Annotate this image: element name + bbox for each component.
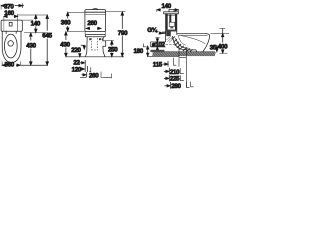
belly curve [172,36,196,52]
outlet stub (horizontal, rear) [151,42,166,47]
button [9,22,12,26]
hidden dashed trap lines [91,38,97,50]
svg-text:430: 430 [26,43,36,50]
inner trap lines [176,38,189,48]
bolt marks [89,38,91,40]
bowl side outline [165,31,167,42]
dim 140 top [157,9,179,14]
svg-text:645: 645 [42,32,52,39]
svg-text:G¾: G¾ [147,27,158,34]
svg-text:ø102: ø102 [152,41,166,48]
trap hatch [172,36,193,51]
svg-text:360: 360 [5,62,15,69]
svg-text:430: 430 [60,41,70,48]
svg-text:400: 400 [218,44,228,51]
G 3/4 inlet [162,32,166,34]
below-floor outlet pipe [179,47,187,58]
dim 790 [106,12,125,57]
heavier hatch under stub [151,50,165,52]
svg-text:250: 250 [108,47,118,54]
bowl rim ellipse [4,34,17,58]
dim 360 (cistern height) [66,12,85,31]
dim 160 [4,14,18,20]
dim 370 top [1,3,24,9]
svg-text:120: 120 [72,66,82,73]
ref lines right [18,15,48,33]
floor [153,51,216,53]
dim 430 (front view) [65,32,68,57]
seat band [85,32,105,35]
svg-text:140: 140 [162,3,172,10]
cistern front [85,10,106,32]
dim 250 [106,41,114,57]
dim 400 [211,28,230,53]
dim 430 (left view) [30,33,33,65]
drain circle [8,41,14,47]
svg-text:790: 790 [118,30,128,37]
dim 140 vertical [35,15,38,33]
svg-text:260: 260 [87,20,97,27]
280 [164,85,169,87]
anchor arrow on floor [79,54,81,57]
svg-text:360: 360 [61,19,71,26]
bowl outer [2,31,21,62]
225 [164,77,168,79]
dim 645 (left view) [46,15,49,65]
svg-text:220: 220 [71,47,81,54]
210 [164,70,168,72]
dim 360 bottom [2,62,48,67]
svg-text:280: 280 [171,83,181,90]
svg-text:140: 140 [31,20,41,27]
svg-text:260: 260 [89,72,99,79]
cistern side: button, lid, body [169,10,174,12]
svg-text:180: 180 [134,48,144,55]
svg-text:225: 225 [170,76,180,83]
cistern interior (section) [166,14,168,31]
seat top and front [177,34,210,52]
svg-text:115: 115 [153,62,163,69]
seat hinge ticks [6,31,16,34]
floor hatch band [152,52,216,56]
pedestal front [86,37,88,57]
ref verticals [173,58,176,65]
lower floor line [147,55,179,57]
cistern top-view rect [1,20,22,31]
floor line [66,56,124,58]
svg-text:160: 160 [4,10,14,17]
